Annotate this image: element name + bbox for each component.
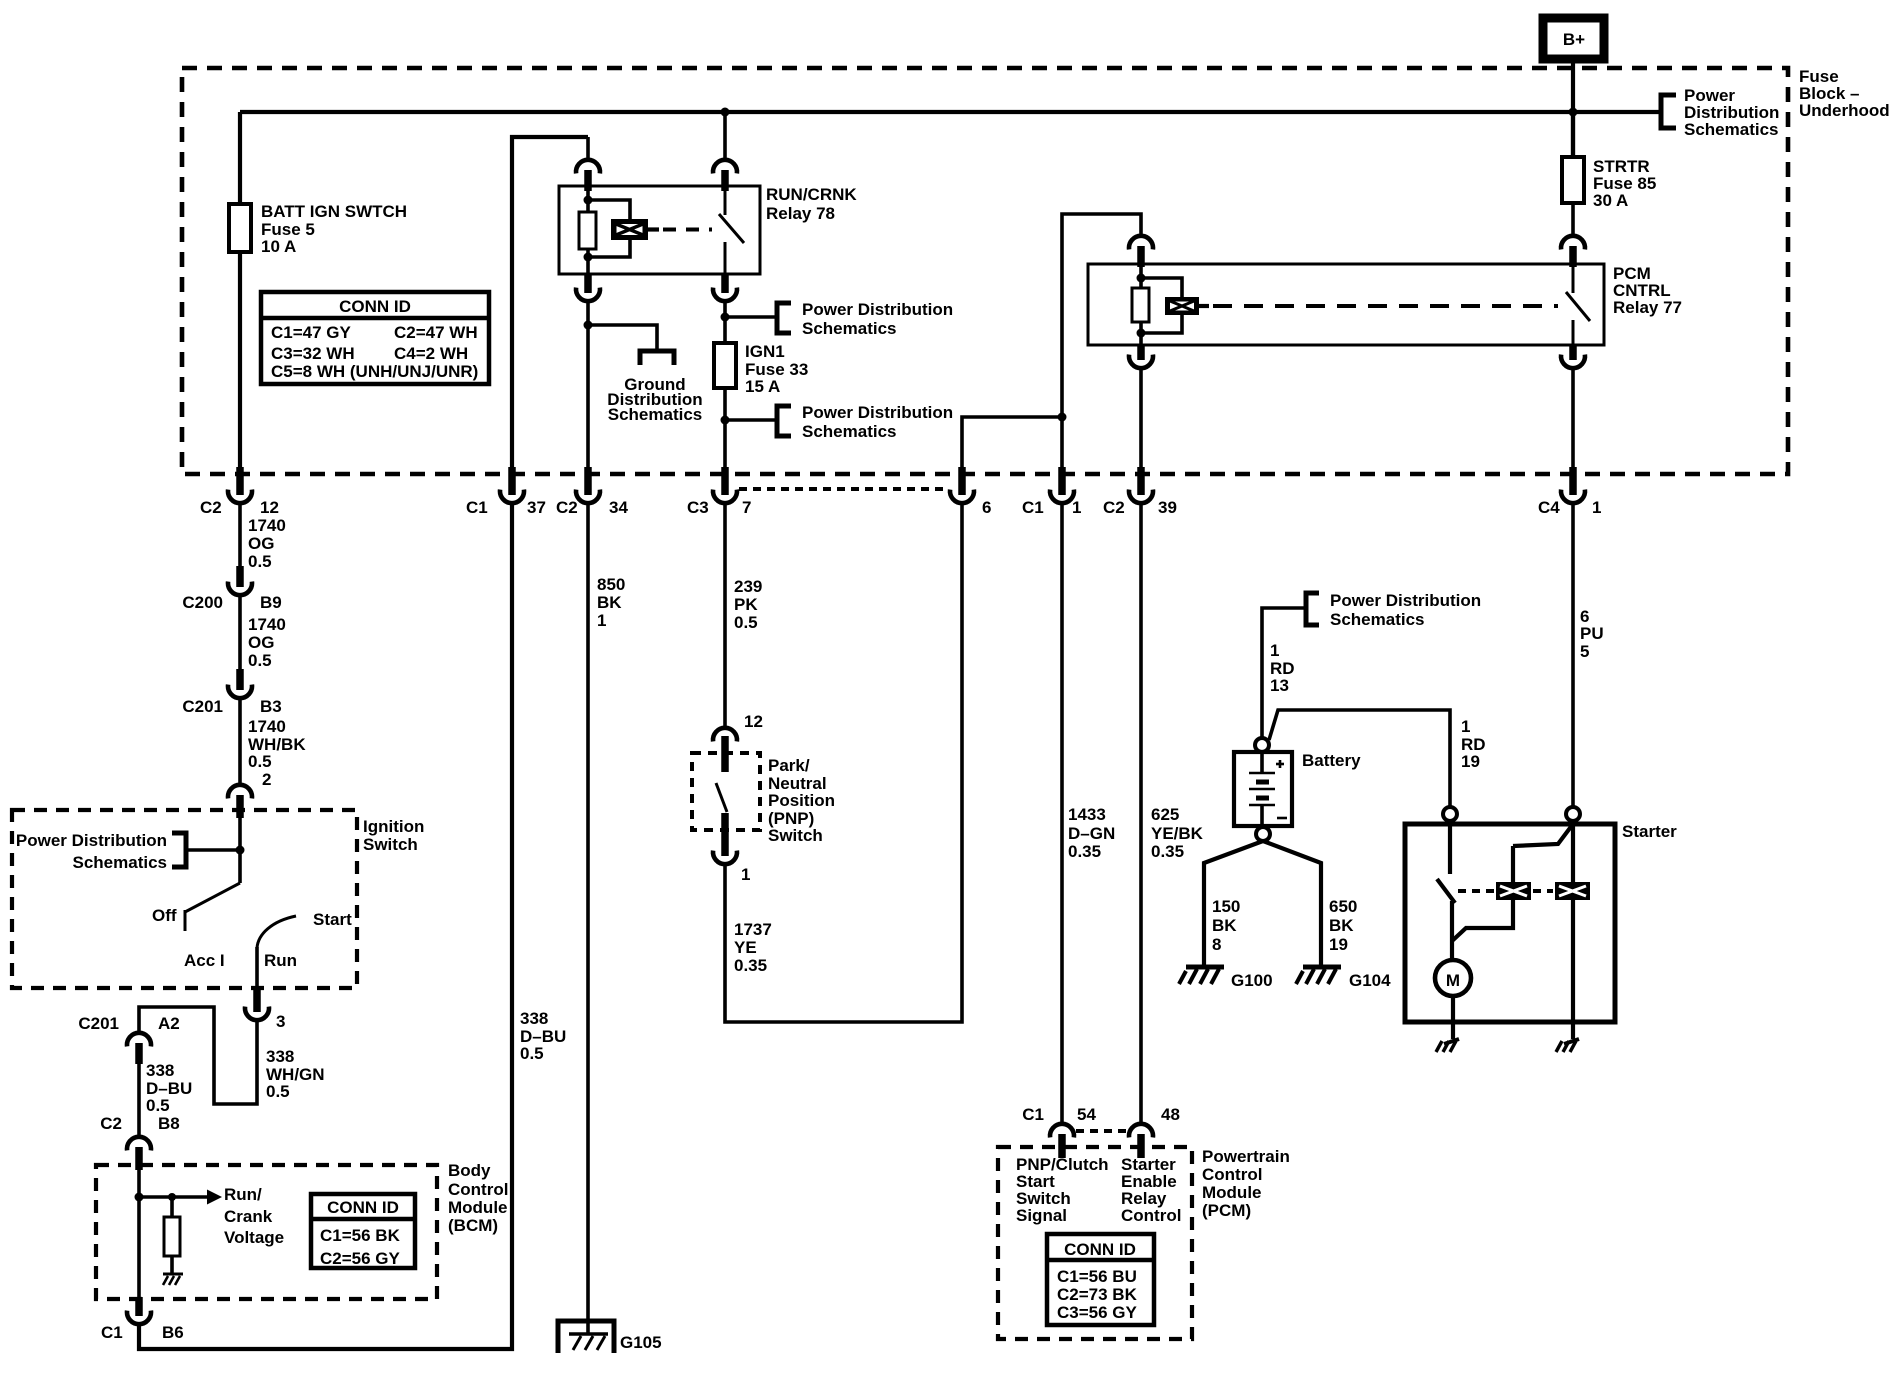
svg-text:Schematics: Schematics (73, 853, 168, 872)
svg-text:C3: C3 (687, 498, 709, 517)
svg-text:239: 239 (734, 577, 762, 596)
svg-text:CONN ID: CONN ID (327, 1198, 399, 1217)
connector arc relay 77 switch top (1561, 236, 1585, 267)
wire strtr fuse branch (1571, 112, 1575, 157)
bracket power distribution schematics (top right) (1661, 86, 1779, 139)
connector C1 pin 37 (466, 467, 546, 517)
wire 1 RD 19 to starter (1269, 710, 1486, 806)
svg-text:30 A: 30 A (1593, 191, 1628, 210)
connector PNP pin 1 (713, 813, 750, 884)
bracket power distribution schematics (above IGN1) (777, 300, 953, 338)
svg-text:G100: G100 (1231, 971, 1273, 990)
svg-text:10 A: 10 A (261, 237, 296, 256)
svg-text:Control: Control (448, 1180, 508, 1199)
CONN ID table BCM (311, 1194, 415, 1268)
wire relay coil to ground distribution (586, 303, 590, 467)
svg-text:BK: BK (597, 593, 622, 612)
svg-text:37: 37 (527, 498, 546, 517)
svg-text:Starter: Starter (1622, 822, 1677, 841)
connector arc C201 pin A2 (78, 1014, 179, 1064)
wire label 338 D-BU 0.5 (C1-37 riser) (520, 1009, 566, 1063)
wire to power dist bracket lower (725, 418, 778, 422)
ground G104 (1296, 967, 1391, 990)
svg-text:1740: 1740 (248, 615, 286, 634)
starter mechanical dashed links (1458, 889, 1553, 893)
svg-text:8: 8 (1212, 935, 1221, 954)
wire ign1 branch (723, 303, 727, 343)
svg-text:1: 1 (1592, 498, 1601, 517)
svg-text:1740: 1740 (248, 717, 286, 736)
relay 77 switch blade (1566, 264, 1590, 345)
svg-text:RUN/CRNK: RUN/CRNK (766, 185, 857, 204)
svg-text:Run: Run (264, 951, 297, 970)
connector C1 pin B6 (101, 1297, 184, 1342)
wire run output (255, 947, 259, 992)
relay PCM CNTRL Relay 77 box (1088, 264, 1682, 345)
ignition position labels (184, 951, 297, 970)
PNP switch blade (716, 783, 727, 812)
CONN ID table PCM (1047, 1234, 1154, 1325)
svg-text:Relay 78: Relay 78 (766, 204, 835, 223)
svg-text:(PCM): (PCM) (1202, 1201, 1251, 1220)
wire 338 D-BU to BCM (139, 1061, 192, 1136)
svg-text:C1=56 BK: C1=56 BK (320, 1226, 401, 1245)
connector C201 pin B3 (182, 669, 281, 716)
bracket power distribution schematics (ignition) (16, 831, 186, 872)
battery (1234, 751, 1361, 827)
wire ground 850 BK (588, 503, 625, 1334)
BCM dashed box (96, 1161, 508, 1299)
svg-text:G105: G105 (620, 1333, 662, 1352)
svg-text:Schematics: Schematics (1684, 120, 1779, 139)
svg-text:C1: C1 (101, 1323, 123, 1342)
ground starter motor case (1436, 1039, 1459, 1052)
svg-text:Schematics: Schematics (1330, 610, 1425, 629)
svg-text:Run/: Run/ (224, 1185, 262, 1204)
starter solenoid blade (1513, 824, 1573, 846)
svg-text:Switch: Switch (768, 826, 823, 845)
dotted connector group line PCM (1076, 1129, 1128, 1133)
svg-text:Powertrain: Powertrain (1202, 1147, 1290, 1166)
wire 1740 OG segment 1 (240, 503, 286, 571)
svg-text:Power Distribution: Power Distribution (802, 300, 953, 319)
svg-text:0.5: 0.5 (266, 1082, 290, 1101)
ignition switch blade Off (152, 883, 240, 931)
relay 77 switch bottom connector (1561, 345, 1585, 368)
connector C2 pin 39 (1103, 467, 1177, 517)
wire relay 78 switch feed from bus (723, 112, 727, 158)
relay 78 coil bottom connector (576, 274, 600, 301)
ground G105 (558, 1321, 662, 1353)
svg-text:0.5: 0.5 (248, 552, 272, 571)
svg-text:B3: B3 (260, 697, 282, 716)
svg-text:338: 338 (266, 1047, 294, 1066)
svg-text:Schematics: Schematics (802, 319, 897, 338)
svg-text:OG: OG (248, 633, 274, 652)
svg-text:PU: PU (1580, 624, 1604, 643)
connector arc relay 77 coil top (1129, 236, 1153, 267)
fuse block underhood dashed boundary box (182, 68, 1788, 474)
svg-text:54: 54 (1077, 1105, 1096, 1124)
terminal circle starter battery post (1443, 807, 1457, 821)
solenoid coil box 1 (1496, 882, 1531, 900)
starter motor (1435, 960, 1471, 996)
svg-text:Control: Control (1121, 1206, 1181, 1225)
svg-text:C1: C1 (1022, 498, 1044, 517)
wire below IGN1 (723, 388, 727, 467)
svg-text:C201: C201 (78, 1014, 119, 1033)
relay 78 coil box symbol (611, 219, 659, 240)
svg-text:YE: YE (734, 938, 757, 957)
svg-text:1: 1 (1270, 641, 1279, 660)
svg-text:0.35: 0.35 (734, 956, 767, 975)
svg-text:12: 12 (260, 498, 279, 517)
svg-text:150: 150 (1212, 897, 1240, 916)
svg-text:Battery: Battery (1302, 751, 1361, 770)
svg-text:Control: Control (1202, 1165, 1262, 1184)
svg-text:B9: B9 (260, 593, 282, 612)
svg-text:B8: B8 (158, 1114, 180, 1133)
wire to ignition power dist bracket (186, 848, 240, 852)
wire ignition feed (238, 814, 242, 883)
svg-text:C1: C1 (1022, 1105, 1044, 1124)
svg-text:M: M (1446, 971, 1460, 990)
svg-text:C1: C1 (466, 498, 488, 517)
PCM dashed box (998, 1147, 1192, 1339)
wire C1-37 feed inside fuse block (512, 137, 588, 467)
svg-text:C1=47 GY: C1=47 GY (271, 323, 352, 342)
connector pin 6 (950, 467, 991, 517)
svg-text:C2=73 BK: C2=73 BK (1057, 1285, 1138, 1304)
svg-text:CONN ID: CONN ID (339, 297, 411, 316)
relay 77 coil bottom connector (1129, 345, 1153, 368)
svg-text:C2: C2 (1103, 498, 1125, 517)
svg-text:39: 39 (1158, 498, 1177, 517)
wire B+ down to bus (1571, 59, 1575, 157)
wire below strtr fuse (1571, 203, 1575, 235)
connector C3 pin 7 (687, 467, 751, 517)
bracket ground distribution schematics (607, 351, 702, 424)
svg-text:19: 19 (1461, 752, 1480, 771)
relay 77 coil circuit (1132, 266, 1182, 345)
svg-text:D–GN: D–GN (1068, 824, 1115, 843)
svg-text:15 A: 15 A (745, 377, 780, 396)
fuse BATT IGN SWTCH Fuse 5 10A (229, 202, 407, 256)
svg-text:C5=8 WH (UNH/UNJ/UNR): C5=8 WH (UNH/UNJ/UNR) (271, 362, 478, 381)
svg-text:Start: Start (313, 910, 352, 929)
svg-text:Schematics: Schematics (802, 422, 897, 441)
dotted connector group line C3 to 6 (739, 487, 948, 491)
svg-text:C3=32 WH: C3=32 WH (271, 344, 355, 363)
wire BCM B6 to C1-37 riser (139, 503, 512, 1349)
connector C200 pin B9 (182, 566, 281, 612)
wire main bus (240, 110, 1659, 114)
svg-text:0.35: 0.35 (1151, 842, 1184, 861)
svg-text:Power Distribution: Power Distribution (802, 403, 953, 422)
wire ground distribution tap (588, 325, 657, 351)
connector arc PCM C1 pin 54 (1022, 1105, 1096, 1158)
wire 650 BK to G104 (1263, 841, 1357, 967)
svg-text:G104: G104 (1349, 971, 1391, 990)
svg-text:Relay 77: Relay 77 (1613, 298, 1682, 317)
wire 1737 YE (725, 503, 962, 1022)
PCM label (1202, 1147, 1290, 1220)
svg-text:0.35: 0.35 (1068, 842, 1101, 861)
svg-text:BATT IGN SWTCH: BATT IGN SWTCH (261, 202, 407, 221)
arrow run/crank voltage (139, 1185, 284, 1247)
svg-text:Position: Position (768, 791, 835, 810)
svg-text:13: 13 (1270, 676, 1289, 695)
node junction bus / RUN-CRNK relay feed (721, 108, 730, 117)
svg-text:Schematics: Schematics (608, 405, 703, 424)
starter contact feed (1448, 821, 1452, 874)
wire relay77 coil feed (1062, 214, 1141, 467)
svg-text:1: 1 (597, 611, 606, 630)
fuse IGN1 Fuse 33 15A (714, 342, 808, 396)
svg-text:Power Distribution: Power Distribution (16, 831, 167, 850)
starter solenoid winding 1 feed (1511, 846, 1515, 883)
svg-text:PK: PK (734, 595, 758, 614)
svg-text:Ignition: Ignition (363, 817, 424, 836)
svg-text:C2=47 WH: C2=47 WH (394, 323, 478, 342)
wire 338 WH/GN (139, 1007, 325, 1104)
wire batt ign fuse branch (238, 112, 242, 467)
svg-text:Module: Module (1202, 1183, 1262, 1202)
wire 1433 D-GN to PCM (1062, 503, 1115, 1122)
connector arc relay 78 switch top (713, 160, 737, 191)
starter box (1405, 822, 1677, 1022)
PNP switch dashed box (692, 753, 835, 845)
svg-text:C1=56 BU: C1=56 BU (1057, 1267, 1137, 1286)
B+ terminal (1543, 18, 1604, 59)
svg-text:0.5: 0.5 (248, 752, 272, 771)
svg-text:Acc I: Acc I (184, 951, 225, 970)
starter motor wire (1450, 901, 1454, 962)
relay 78 mechanical dashed link (663, 228, 712, 232)
svg-text:2: 2 (262, 770, 271, 789)
svg-text:34: 34 (609, 498, 628, 517)
wire relay 77 coil low side down (1139, 369, 1143, 467)
svg-text:Crank: Crank (224, 1207, 273, 1226)
svg-text:A2: A2 (158, 1014, 180, 1033)
svg-text:C4=2 WH: C4=2 WH (394, 344, 468, 363)
wire 150 BK to G100 (1204, 841, 1263, 967)
svg-text:C2: C2 (200, 498, 222, 517)
svg-text:Signal: Signal (1016, 1206, 1067, 1225)
svg-text:Underhood: Underhood (1799, 101, 1890, 120)
connector arc PCM pin 48 (1129, 1105, 1180, 1158)
connector C1 pin 1 (1022, 467, 1081, 517)
CONN ID table fuse block (261, 292, 489, 384)
svg-text:850: 850 (597, 575, 625, 594)
connector arc C2 pin B8 (100, 1114, 179, 1170)
svg-text:5: 5 (1580, 642, 1589, 661)
bracket power distribution schematics (battery) (1306, 591, 1481, 629)
connector C2 pin 34 (556, 467, 628, 517)
svg-text:C2: C2 (556, 498, 578, 517)
svg-text:338: 338 (146, 1061, 174, 1080)
ground BCM internal (163, 1274, 183, 1285)
svg-text:OG: OG (248, 534, 274, 553)
svg-text:338: 338 (520, 1009, 548, 1028)
connector arc PNP pin 12 (713, 712, 763, 772)
svg-text:IGN1: IGN1 (745, 342, 785, 361)
svg-text:0.5: 0.5 (520, 1044, 544, 1063)
connector ignition pin 3 (245, 990, 285, 1031)
wire relay 77 switch output down (1571, 369, 1575, 467)
svg-text:3: 3 (276, 1012, 285, 1031)
node junction resistor tap (168, 1193, 176, 1201)
solenoid winding 1 return (1452, 900, 1513, 941)
svg-text:1737: 1737 (734, 920, 772, 939)
svg-text:BK: BK (1329, 916, 1354, 935)
node junction bus / B+ (1569, 108, 1578, 117)
connector arc relay 78 coil top (576, 160, 600, 191)
svg-text:7: 7 (742, 498, 751, 517)
svg-text:(BCM): (BCM) (448, 1216, 498, 1235)
svg-text:0.5: 0.5 (734, 613, 758, 632)
svg-text:CONN ID: CONN ID (1064, 1240, 1136, 1259)
wire relay coil pin up (586, 137, 590, 158)
svg-text:12: 12 (744, 712, 763, 731)
svg-text:B+: B+ (1563, 30, 1585, 49)
wire BCM internal (137, 1168, 141, 1299)
svg-text:Module: Module (448, 1198, 508, 1217)
starter switch blade (1437, 879, 1455, 903)
svg-text:6: 6 (982, 498, 991, 517)
node junction power dist tap upper (721, 313, 730, 322)
wire 625 YE/BK to PCM (1141, 503, 1204, 1122)
svg-text:Off: Off (152, 906, 177, 925)
svg-text:1: 1 (741, 865, 750, 884)
relay 78 switch bottom connector (713, 274, 737, 301)
svg-text:1: 1 (1461, 717, 1470, 736)
node junction power dist tap ignition (236, 846, 245, 855)
svg-text:Switch: Switch (363, 835, 418, 854)
svg-text:C2: C2 (100, 1114, 122, 1133)
wire to power dist bracket upper (725, 315, 778, 319)
ground starter solenoid case (1556, 1039, 1579, 1052)
node junction pin6 / relay77 coil feed (1058, 413, 1067, 422)
wire solenoid main down (1571, 821, 1575, 1039)
svg-text:1: 1 (1072, 498, 1081, 517)
fuse STRTR Fuse 85 30A (1562, 157, 1656, 210)
relay 77 coil box symbol (1165, 297, 1209, 315)
fuse block label (1799, 67, 1890, 120)
terminal circle battery positive (1255, 738, 1269, 752)
relay RUN/CRNK Relay 78 box (559, 185, 857, 274)
bracket power distribution schematics (below IGN1) (777, 403, 953, 441)
terminal circle battery negative (1256, 827, 1270, 841)
wire 1 RD 13 battery feed (1262, 608, 1306, 737)
svg-text:C2=56 GY: C2=56 GY (320, 1249, 401, 1268)
node junction power dist tap lower (721, 416, 730, 425)
connector C2 pin 12 (200, 467, 279, 517)
node junction ground distribution tap (584, 321, 593, 330)
svg-text:Park/: Park/ (768, 756, 810, 775)
svg-text:19: 19 (1329, 935, 1348, 954)
svg-text:0.5: 0.5 (146, 1096, 170, 1115)
svg-text:48: 48 (1161, 1105, 1180, 1124)
relay 78 switch blade (719, 186, 744, 274)
wire 1740 WH/BK segment (240, 698, 306, 789)
svg-text:Voltage: Voltage (224, 1228, 284, 1247)
svg-text:C4: C4 (1538, 498, 1560, 517)
terminal circle starter solenoid post (1566, 807, 1580, 821)
wire motor to case ground (1451, 996, 1455, 1039)
connector C4 pin 1 (1538, 467, 1601, 517)
svg-text:1433: 1433 (1068, 805, 1106, 824)
ignition switch Start blade curve (257, 910, 352, 948)
svg-text:1740: 1740 (248, 516, 286, 535)
svg-text:YE/BK: YE/BK (1151, 824, 1204, 843)
solenoid coil box 2 (1555, 882, 1590, 900)
ground G100 (1179, 967, 1273, 990)
svg-text:BK: BK (1212, 916, 1237, 935)
svg-text:C3=56 GY: C3=56 GY (1057, 1303, 1138, 1322)
ignition switch dashed box (12, 810, 424, 988)
wire 1740 OG segment 2 (240, 595, 286, 670)
svg-text:Body: Body (448, 1161, 491, 1180)
svg-text:650: 650 (1329, 897, 1357, 916)
PCM pin function labels (1016, 1155, 1181, 1225)
svg-text:C201: C201 (182, 697, 223, 716)
wire 239 PK to PNP switch (725, 503, 762, 727)
svg-text:B6: B6 (162, 1323, 184, 1342)
svg-text:625: 625 (1151, 805, 1179, 824)
svg-text:Power Distribution: Power Distribution (1330, 591, 1481, 610)
resistor BCM pulldown (164, 1197, 180, 1274)
wire 6 PU to starter (1573, 503, 1604, 808)
connector arc ignition switch pin 2 (228, 785, 252, 818)
relay 78 coil circuit (579, 190, 630, 274)
wire pin6 horizontal into fuse block (962, 417, 1062, 467)
svg-text:0.5: 0.5 (248, 651, 272, 670)
node junction run/crank tap (135, 1193, 144, 1202)
relay 77 mechanical dashed link (1213, 304, 1558, 308)
svg-text:C200: C200 (182, 593, 223, 612)
